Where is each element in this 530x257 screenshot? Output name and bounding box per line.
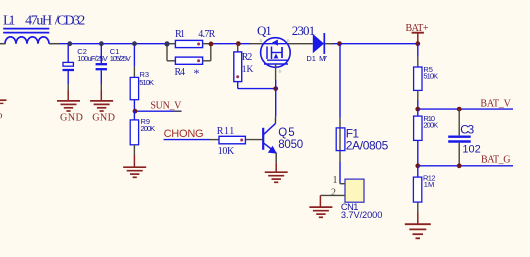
svg-text:102: 102	[462, 143, 480, 155]
svg-text:4.7R: 4.7R	[198, 29, 215, 40]
wire BAT_V	[418, 108, 513, 110]
svg-text:BAT_G: BAT_G	[481, 154, 511, 165]
svg-text:D1: D1	[306, 54, 316, 63]
wire top net from L1 to R1 node	[60, 43, 167, 45]
junction SUN_V node	[133, 109, 138, 114]
ground under C2	[57, 90, 83, 124]
svg-text:BAT_V: BAT_V	[480, 99, 511, 110]
svg-text:200K: 200K	[141, 124, 156, 133]
resistor R5	[414, 44, 439, 109]
capacitor C2	[63, 44, 108, 90]
resistor R4	[167, 44, 211, 80]
svg-text:47uH: 47uH	[25, 13, 52, 28]
svg-text:GND: GND	[92, 113, 115, 124]
junction R1 left node	[164, 41, 169, 46]
wire from R1/R4 right node to Q1	[211, 43, 250, 45]
junction C1 node	[99, 41, 104, 46]
resistor R10	[414, 109, 439, 166]
junction R2 top node	[236, 41, 241, 46]
ground under R9	[123, 155, 146, 177]
svg-text:L1: L1	[3, 13, 16, 28]
svg-text:1M: 1M	[424, 180, 434, 189]
power port BAT+	[406, 23, 429, 44]
svg-text:8050: 8050	[278, 139, 303, 151]
svg-text:R4: R4	[175, 67, 186, 78]
diode D1	[302, 33, 333, 63]
svg-text:SUN_V: SUN_V	[150, 101, 182, 112]
resistor R12	[413, 166, 435, 213]
svg-text:GND: GND	[60, 113, 83, 124]
svg-text:1K: 1K	[242, 65, 254, 75]
svg-text:/CD32: /CD32	[55, 13, 85, 28]
svg-text:R11: R11	[217, 126, 235, 137]
svg-text:C3: C3	[460, 122, 474, 136]
wire F1 to CN1 pin1	[339, 162, 341, 184]
svg-text:1: 1	[333, 175, 338, 186]
svg-text:3.7V/2000: 3.7V/2000	[341, 210, 383, 220]
svg-text:O: O	[0, 111, 2, 121]
fuse F1	[336, 118, 388, 162]
svg-text:Q1: Q1	[257, 23, 272, 38]
connector CN1	[320, 175, 382, 220]
svg-text:CHONG: CHONG	[164, 128, 204, 140]
svg-text:R1: R1	[175, 29, 185, 40]
junction R5 bottom node	[415, 107, 420, 112]
inductor L1 coil	[5, 37, 49, 44]
svg-text:10K: 10K	[218, 146, 235, 157]
wire R2 bottom to Q1 drain node	[238, 88, 276, 90]
inductor L1 left pin	[0, 43, 6, 45]
svg-text:D: D	[287, 39, 290, 43]
inductor L1 right pin	[49, 43, 60, 45]
ground under R12	[405, 213, 431, 239]
junction BAT+ node	[415, 41, 420, 46]
resistor R11	[217, 126, 246, 157]
junction R3 node	[132, 41, 137, 46]
svg-text:100uF/25V: 100uF/25V	[77, 54, 108, 63]
capacitor C1	[96, 44, 131, 90]
wire fuse rail down from diode node	[339, 44, 341, 118]
svg-text:510K: 510K	[139, 78, 154, 87]
node SUN_V wire	[134, 110, 174, 112]
svg-text:R2: R2	[242, 52, 253, 63]
capacitor C3	[448, 109, 481, 166]
resistor R2	[234, 44, 254, 89]
junction diode output node	[337, 41, 342, 46]
ground at CN1 pin2	[309, 195, 332, 217]
svg-text:M7: M7	[319, 54, 327, 63]
junction Q1 drain node	[273, 86, 278, 91]
wire diode cathode to BAT+ node	[330, 43, 418, 45]
ground under C1	[90, 90, 115, 124]
junction C3 top node	[457, 107, 462, 112]
wire BAT_G	[418, 165, 513, 167]
svg-text:510K: 510K	[423, 72, 438, 81]
inductor L1 core lines	[3, 28, 49, 30]
svg-text:200K: 200K	[423, 120, 438, 129]
ground under Q5 emitter	[265, 163, 288, 182]
junction C2 node	[67, 41, 72, 46]
resistor R3	[130, 44, 154, 111]
resistor R1	[167, 29, 216, 48]
junction C3 bottom node	[457, 163, 462, 168]
svg-text:105/25V: 105/25V	[110, 54, 131, 63]
transistor Q1 (P-MOSFET)	[250, 23, 302, 88]
svg-text:2A/0805: 2A/0805	[346, 139, 389, 153]
junction R10 bottom node	[415, 163, 420, 168]
transistor Q5 (NPN)	[245, 117, 303, 163]
junction R1 right node	[209, 42, 214, 47]
wire CHONG to R11	[164, 139, 210, 141]
svg-text:2: 2	[331, 187, 336, 198]
clipped net label fragment at left edge	[0, 100, 7, 120]
svg-text:Q5: Q5	[278, 127, 295, 139]
svg-text:2301: 2301	[292, 23, 316, 38]
svg-text:*: *	[194, 66, 200, 80]
resistor R9	[130, 111, 155, 155]
svg-text:D: D	[279, 70, 282, 74]
wire Q1 drain node down to Q5 collector	[275, 89, 277, 117]
